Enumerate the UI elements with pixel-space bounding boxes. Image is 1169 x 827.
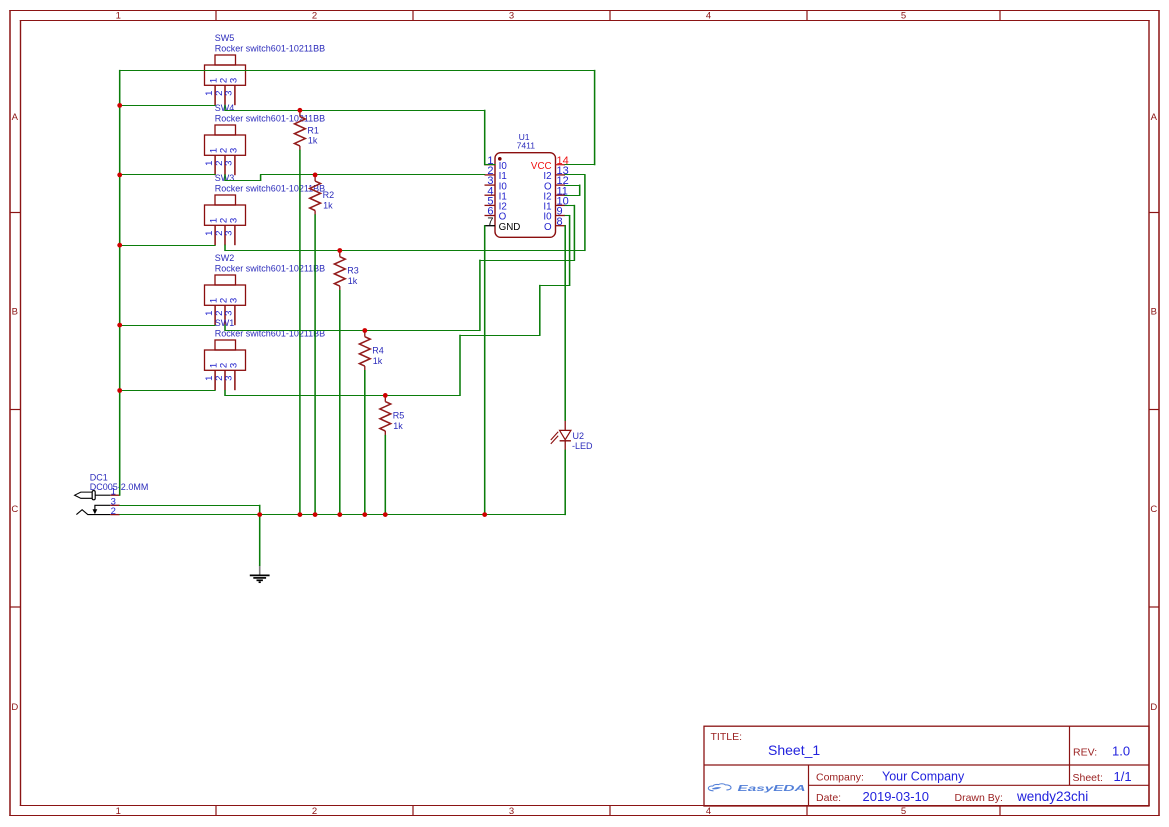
svg-text:1k: 1k [373,356,383,366]
border row ticks [10,213,1159,608]
wire VCC to SW1 pin1 [119,390,215,392]
svg-text:Sheet:: Sheet: [1073,772,1103,784]
svg-text:Rocker switch601-10211BB: Rocker switch601-10211BB [215,114,325,124]
resistor R5 [380,395,404,435]
U1 pin 9 [543,206,565,223]
resistor R3 [334,251,358,291]
wire SW1 pin2 to R5 to U1 pin9 [224,215,570,396]
wire R4 bottom to GND row [364,370,366,515]
wire VCC trunk+top to U1 pin14 [119,70,595,496]
junction dots [117,103,487,517]
wire SW5 pin2 to R1 to U1 pin1 [224,105,495,165]
U1 pin 10 [543,196,568,213]
wire SW2 pin2 to R4 to U1 pin10 [224,205,575,331]
svg-text:Date:: Date: [816,792,841,804]
U1 pin 6 [485,206,507,223]
U1 pin 14 [531,155,569,172]
svg-text:Your Company: Your Company [882,770,965,784]
rocker switch SW3 [204,173,325,245]
svg-text:1k: 1k [348,276,358,286]
svg-text:R4: R4 [372,346,384,356]
svg-text:Sheet_1: Sheet_1 [768,742,820,758]
svg-text:Company:: Company: [816,771,864,783]
svg-text:D: D [11,702,18,713]
rocker switch SW4 [204,103,325,175]
svg-text:5: 5 [901,806,906,817]
svg-text:4: 4 [706,11,711,22]
wire R1 bottom to GND row [299,150,301,515]
svg-text:3: 3 [224,231,235,236]
U1 pin 4 [485,185,507,202]
svg-text:U2: U2 [573,431,585,441]
svg-text:7: 7 [487,216,493,228]
svg-text:SW5: SW5 [215,33,235,43]
border column labels [116,11,906,818]
svg-text:3: 3 [228,298,239,303]
svg-text:TITLE:: TITLE: [711,731,743,743]
wire GND row to ground symbol [259,514,261,566]
svg-text:7411: 7411 [517,140,536,150]
svg-text:A: A [1151,112,1158,123]
wire SW3 pin2 to R3 to U1 pin13 [224,174,585,251]
svg-text:1.0: 1.0 [1112,744,1130,759]
svg-text:wendy23chi: wendy23chi [1016,789,1088,804]
LED U2 [551,420,593,451]
svg-text:R1: R1 [307,126,319,136]
svg-text:1/1: 1/1 [1114,769,1132,784]
EasyEDA logo [708,784,806,793]
svg-text:R5: R5 [393,411,405,421]
svg-text:2019-03-10: 2019-03-10 [863,789,930,804]
svg-text:3: 3 [224,161,235,166]
svg-text:-LED: -LED [572,441,593,451]
svg-text:Rocker switch601-10211BB: Rocker switch601-10211BB [215,264,325,274]
wire R3 bottom to GND row [339,290,341,515]
svg-text:2: 2 [111,506,116,517]
wire U1 pin8 to LED anode [564,225,565,421]
U1 pin 7 [485,216,521,233]
svg-text:3: 3 [228,363,239,368]
svg-text:Drawn By:: Drawn By: [955,792,1003,804]
resistor R2 [310,175,334,215]
svg-text:EasyEDA: EasyEDA [738,784,807,793]
svg-text:C: C [1150,504,1157,515]
border column ticks [216,11,1000,816]
wire VCC to SW3 pin1 [119,245,215,247]
svg-text:3: 3 [224,311,235,316]
svg-text:1k: 1k [308,136,318,146]
border row labels [11,112,1157,713]
wire VCC to SW4 pin1 [119,174,215,176]
svg-text:Rocker switch601-10211BB: Rocker switch601-10211BB [215,44,325,54]
svg-text:5: 5 [901,11,906,22]
svg-text:3: 3 [228,148,239,153]
svg-text:1k: 1k [323,200,333,210]
svg-text:8: 8 [557,216,563,228]
DC jack DC1 [75,472,149,517]
wire R2 bottom to GND row [314,214,316,515]
svg-text:B: B [1151,306,1157,317]
ground [250,565,270,582]
wire LED cathode to GND row [564,450,566,516]
rocker switch SW5 [204,33,325,105]
svg-text:A: A [12,112,19,123]
U1 pin 11 [543,185,567,202]
resistor R1 [295,110,319,150]
title block frame [704,726,1149,806]
svg-text:3: 3 [228,218,239,223]
wire SW4 pin2 to R2 to U1 pin2 [224,174,485,181]
op IC U1 7411 [495,132,556,237]
U1 pin 8 [544,216,565,233]
svg-text:1: 1 [116,806,121,817]
resistor R4 [359,331,383,371]
wire U1 pin7 to GND row [484,225,486,515]
svg-text:SW2: SW2 [215,253,235,263]
svg-text:O: O [544,222,552,233]
wire R5 bottom to GND row [384,435,386,515]
svg-text:2: 2 [312,806,317,817]
svg-text:R3: R3 [347,266,359,276]
svg-text:3: 3 [228,78,239,83]
wire VCC to SW2 pin1 [119,325,215,327]
svg-text:DC1: DC1 [90,472,108,482]
wire VCC to SW5 pin1 [119,105,215,107]
wire U1 pin12 to pin11 [564,185,580,196]
svg-text:R2: R2 [323,190,335,200]
svg-text:2: 2 [312,11,317,22]
U1 pin 13 [543,165,568,182]
svg-text:4: 4 [706,806,711,817]
svg-text:GND: GND [499,222,521,233]
rocker switch SW2 [204,253,325,325]
U1 pin 2 [485,165,507,182]
svg-text:REV:: REV: [1073,747,1097,759]
rocker switch SW1 [204,318,325,390]
svg-text:B: B [12,306,18,317]
svg-text:C: C [11,504,18,515]
svg-text:3: 3 [224,376,235,381]
svg-text:1: 1 [116,11,121,22]
svg-text:1k: 1k [393,421,403,431]
U1 pin 12 [544,175,569,192]
wire DC1 pin3 to GND row [119,505,260,515]
U1 pin 5 [485,196,507,213]
svg-text:3: 3 [224,91,235,96]
wire GND bottom row [119,514,566,516]
svg-text:3: 3 [509,806,514,817]
U1 pin 3 [485,175,508,192]
svg-text:3: 3 [509,11,514,22]
U1 pin 1 [485,155,508,172]
svg-text:D: D [1150,702,1157,713]
